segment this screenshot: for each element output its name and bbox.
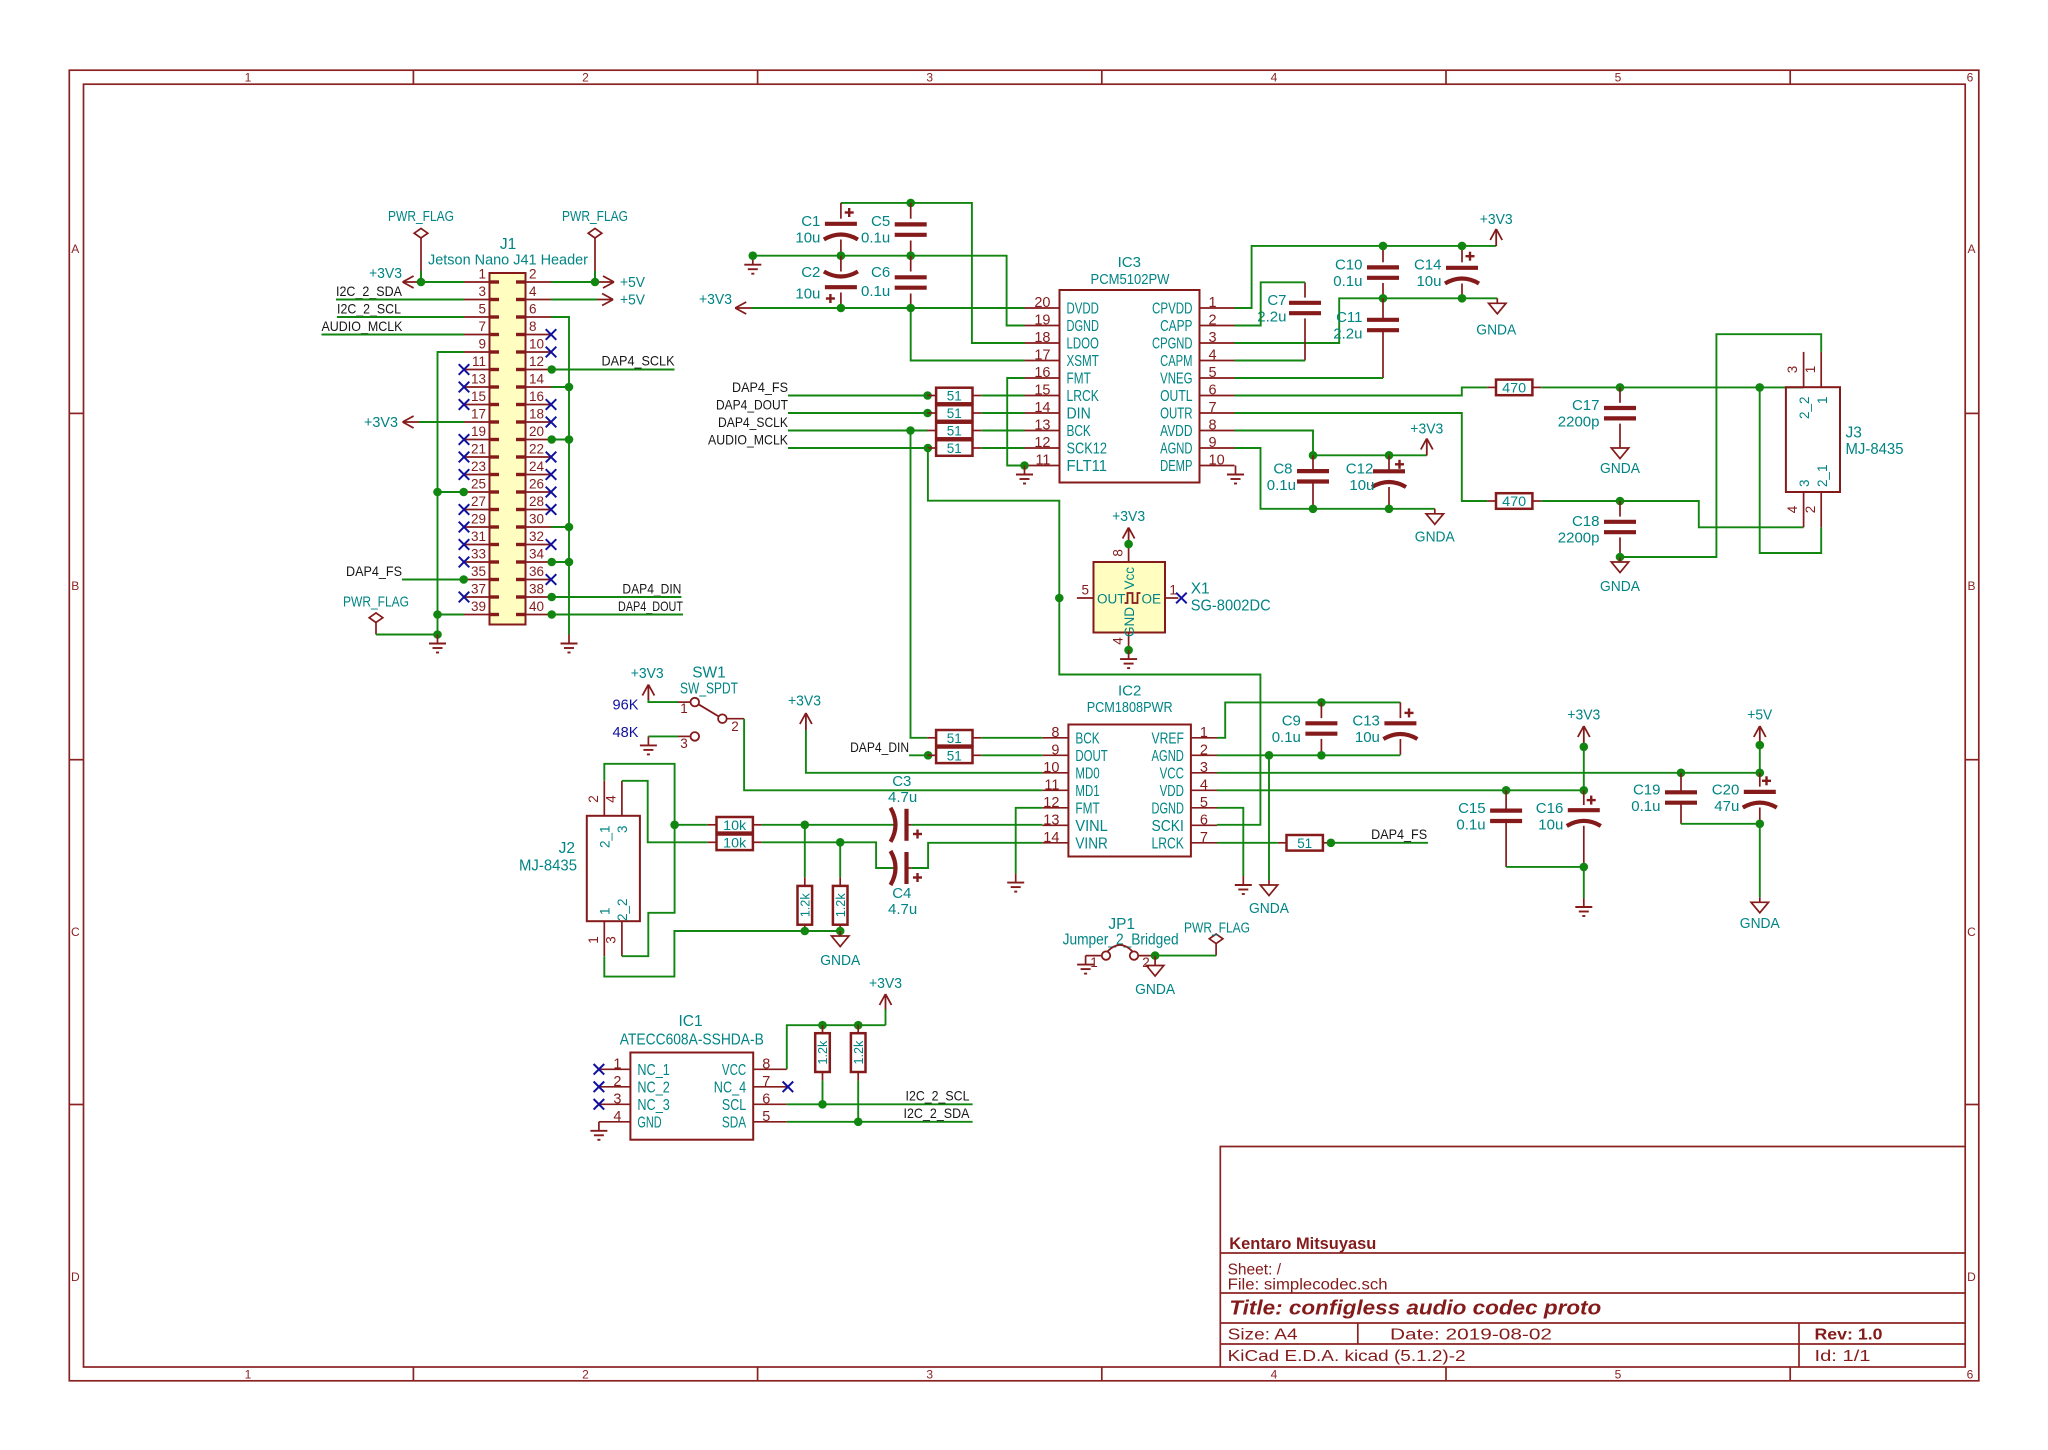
svg-text:C13: C13 [1352,713,1380,730]
svg-text:3: 3 [1785,366,1800,374]
svg-text:AGND: AGND [1152,748,1184,765]
svg-text:FMT: FMT [1067,371,1092,388]
ground GND (DEMP) [1227,466,1244,484]
svg-text:11: 11 [1035,453,1050,469]
junction J1 pin25 pin end [459,488,468,497]
svg-text:36: 36 [529,564,544,579]
capacitor C6 [861,256,927,308]
junction J1 pin1 [417,278,426,287]
svg-text:2: 2 [1803,506,1818,514]
ground GND (J1 right rail) [561,635,578,653]
label DAP4_DOUT (J1) [618,598,683,614]
svg-text:1: 1 [478,267,486,282]
junction C17 top [1616,383,1625,392]
svg-text:4: 4 [613,1109,621,1125]
svg-text:MJ-8435: MJ-8435 [1846,441,1904,458]
svg-text:DGND: DGND [1067,318,1099,335]
wire SW1 pin2 to MD1 pin11 [744,719,1042,791]
svg-text:10: 10 [1209,453,1225,469]
svg-text:32: 32 [529,529,544,544]
wire J1 GND rail left (pins 9,25,39) [438,352,465,635]
wire LRCK pin7 to R [1217,842,1278,844]
svg-text:+3V3: +3V3 [869,976,902,992]
svg-text:PWR_FLAG: PWR_FLAG [343,595,409,611]
junction C8 bottom [1309,505,1318,514]
svg-text:SW1: SW1 [692,665,726,682]
power +3V3 at J1 pin1 [369,266,420,288]
svg-text:File: simplecodec.sch: File: simplecodec.sch [1228,1277,1388,1294]
svg-text:3: 3 [1209,330,1217,346]
wire R470 to J3 pin4 [1541,501,1803,527]
power +5V (IC2 VCC) [1747,708,1772,744]
svg-text:DAP4_SCLK: DAP4_SCLK [602,353,676,369]
no-connect IC1 pin3 [594,1099,605,1110]
svg-text:8: 8 [1209,418,1217,434]
wire C18 GNDA to J3 pin1 [1620,334,1821,557]
ground GNDA (bias) [820,931,860,969]
wire J1 pin7 AUDIO_MCLK [322,334,465,336]
svg-text:VCC: VCC [722,1062,746,1079]
svg-text:CAPM: CAPM [1160,353,1192,370]
svg-text:8: 8 [529,319,537,334]
resistor 1.2k (SDA pullup) [851,1025,866,1081]
wire +3V3 DVDD rail [752,307,1025,309]
svg-text:37: 37 [471,582,486,597]
svg-text:PWR_FLAG: PWR_FLAG [1184,921,1250,937]
svg-text:3: 3 [1797,479,1812,487]
junction OUTL net at J3 [1755,383,1764,392]
svg-text:MJ-8435: MJ-8435 [519,858,577,875]
svg-text:C5: C5 [871,213,890,230]
junction J1 pin30 rail [565,523,574,532]
wire R to BCK pin13 [981,430,1024,432]
wire DAP4_DOUT to R DIN [788,412,928,414]
wire DAP4_DIN to R DOUT [909,754,927,756]
junction C8 top [1309,451,1318,460]
svg-text:8: 8 [1111,549,1126,557]
svg-text:18: 18 [1034,330,1050,346]
svg-text:C1: C1 [801,213,820,230]
wire OUTL to R470 top [1235,387,1488,395]
ground GNDA (C10/C14) [1476,298,1516,338]
svg-text:6: 6 [1209,383,1217,399]
svg-text:Kentaro Mitsuyasu: Kentaro Mitsuyasu [1229,1235,1376,1253]
wire R to IC2 BCK pin8 [981,737,1042,739]
power +3V3 (AVDD) [1410,422,1443,456]
svg-text:Date: 2019-08-02: Date: 2019-08-02 [1390,1327,1552,1344]
capacitor C17 [1558,387,1636,443]
svg-text:1: 1 [245,1368,252,1382]
svg-text:10u: 10u [1538,816,1563,833]
resistor 51 (IC2 LRCK) [1278,835,1332,851]
svg-text:1: 1 [586,936,601,944]
svg-text:1: 1 [1209,295,1217,311]
capacitor C10 [1333,246,1399,298]
svg-text:4: 4 [1200,777,1208,793]
svg-text:IC2: IC2 [1118,683,1141,700]
svg-text:C7: C7 [1267,292,1286,309]
svg-text:51: 51 [947,389,962,404]
svg-text:C6: C6 [871,264,890,281]
svg-text:96K: 96K [613,697,639,714]
svg-text:14: 14 [529,372,545,387]
svg-text:+5V: +5V [1747,708,1772,724]
svg-text:26: 26 [529,477,544,492]
svg-text:OE: OE [1141,592,1161,607]
svg-text:NC_2: NC_2 [637,1079,669,1096]
resistor 10k (VINR) [708,835,762,851]
svg-text:13: 13 [471,372,486,387]
svg-text:1: 1 [1090,955,1098,970]
svg-text:3: 3 [680,736,688,751]
svg-text:10u: 10u [1355,729,1380,746]
ground GND (C16) [1575,898,1592,916]
ground GND (J1 left rail) [429,635,446,653]
capacitor C8 [1267,455,1329,509]
wire AGND to GNDA arrow [1268,755,1270,880]
svg-text:7: 7 [1209,400,1217,416]
ground GNDA (JP1 pin2) [1135,956,1175,998]
svg-text:KiCad E.D.A. kicad (5.1.2)-2: KiCad E.D.A. kicad (5.1.2)-2 [1228,1348,1466,1365]
power PWR_FLAG (top left) [388,209,454,282]
svg-text:I2C_2_SDA: I2C_2_SDA [336,283,403,299]
ground GNDA (C8/C12) [1415,509,1455,546]
wire J2 pin1 to GNDA rail [604,931,840,977]
svg-text:48K: 48K [613,724,639,741]
junction R LRCK right [1327,839,1336,848]
wire FMT to FLT11/GND [1007,378,1024,466]
svg-text:X1: X1 [1191,581,1210,598]
svg-text:Jetson Nano J41 Header: Jetson Nano J41 Header [428,253,588,269]
junction J1 pin35 [459,575,468,584]
junction J1 pin38 [547,593,556,602]
svg-text:51: 51 [947,731,962,746]
svg-text:20: 20 [1034,295,1050,311]
svg-text:1.2k: 1.2k [852,1040,866,1065]
svg-text:13: 13 [1034,418,1050,434]
svg-text:PWR_FLAG: PWR_FLAG [388,209,454,225]
capacitor C19 [1631,773,1697,824]
no-connect IC1 pin1 [594,1064,605,1075]
svg-text:DAP4_DIN: DAP4_DIN [850,739,909,755]
svg-text:C2: C2 [801,264,820,281]
wire SCL to label [787,1103,973,1105]
power +3V3 (CPVDD rail) [1480,212,1513,246]
resistor 470 (OUTL) [1487,380,1541,396]
svg-text:2.2u: 2.2u [1333,326,1362,343]
svg-text:51: 51 [947,748,962,763]
svg-text:DAP4_FS: DAP4_FS [346,563,402,579]
svg-text:470: 470 [1502,380,1526,395]
junction J1 pin2 [591,278,600,287]
svg-text:470: 470 [1502,494,1526,509]
junction R LRCK left [923,391,932,400]
svg-text:17: 17 [1034,348,1050,364]
ground GNDA (IC2 AGND) [1249,880,1289,917]
wire J1 pin2 to +5V [551,281,598,283]
svg-text:21: 21 [471,442,486,457]
wire IC1 VCC to +3V3 [787,1025,886,1069]
svg-text:C10: C10 [1335,257,1363,274]
wire 10k to C3 [762,824,893,826]
connector J1 Jetson Nano J41 Header [428,236,588,625]
svg-text:5: 5 [1081,583,1089,598]
svg-text:VNEG: VNEG [1160,371,1192,388]
power +3V3 (DVDD rail) [699,292,753,314]
resistor 51 (BCK) [927,423,981,439]
svg-text:CPVDD: CPVDD [1152,301,1193,318]
capacitor C9 [1272,702,1338,754]
svg-text:31: 31 [471,529,486,544]
svg-text:GNDA: GNDA [1600,461,1640,477]
no-connect X1 OE [1176,593,1187,604]
svg-text:FMT: FMT [1075,800,1100,817]
svg-text:7: 7 [1200,830,1208,846]
svg-text:1.2k: 1.2k [816,1040,830,1065]
wire C16 bottom to GND [1583,867,1585,898]
svg-text:19: 19 [1034,313,1050,329]
junction X1 Vcc [1124,540,1133,549]
svg-text:10k: 10k [723,818,746,833]
svg-text:AUDIO_MCLK: AUDIO_MCLK [322,318,404,334]
svg-text:AGND: AGND [1160,441,1192,458]
svg-text:MD1: MD1 [1075,783,1099,800]
junction C9 top [1317,698,1326,707]
ground GND (JP1 pin1) [1077,956,1094,974]
connector J3 MJ-8435 [1785,352,1904,527]
svg-text:+5V: +5V [620,275,645,291]
label DAP4_FS (IC3) [732,379,788,395]
wire VINR bias [839,842,841,877]
svg-text:DGND: DGND [1152,800,1184,817]
svg-text:DAP4_FS: DAP4_FS [732,379,788,395]
junction C1 mid [837,251,846,260]
svg-text:0.1u: 0.1u [861,283,890,300]
ground GNDA (C18) [1600,557,1640,595]
junction C5 mid [906,251,915,260]
label DAP4_FS (IC2) [1371,826,1427,842]
power +5V at J1 pin2 [597,275,646,291]
IC IC2 PCM1808PWR body [1042,683,1217,857]
junction J1 GND rail bottom [433,630,442,639]
junction +5V stem [1756,741,1765,750]
svg-text:7: 7 [762,1074,770,1090]
svg-text:DAP4_DIN: DAP4_DIN [622,581,681,597]
svg-text:17: 17 [471,407,486,422]
svg-text:29: 29 [471,512,486,527]
svg-text:VINL: VINL [1075,818,1108,835]
svg-text:22: 22 [529,442,544,457]
svg-text:OUTR: OUTR [1160,406,1192,423]
svg-text:DIN: DIN [1067,406,1091,423]
svg-text:11: 11 [472,354,486,369]
svg-text:2: 2 [1209,313,1217,329]
svg-text:DAP4_FS: DAP4_FS [1371,826,1427,842]
svg-text:5: 5 [1209,365,1217,381]
svg-text:1: 1 [1815,396,1830,404]
svg-text:GNDA: GNDA [1600,579,1640,595]
svg-text:I2C_2_SDA: I2C_2_SDA [904,1105,971,1121]
svg-text:GNDA: GNDA [1415,530,1455,546]
svg-text:10k: 10k [723,835,746,850]
svg-text:GNDA: GNDA [1476,323,1516,339]
note 48K [613,724,639,741]
svg-text:A: A [71,242,79,256]
power PWR_FLAG (J1 bottom) [343,595,409,635]
svg-text:3: 3 [613,1091,621,1107]
junction JP1 pin2 [1151,951,1160,960]
junction J1 pin40 [547,610,556,619]
wire C4 to VINR pin14 [911,843,1042,868]
svg-text:OUTL: OUTL [1160,388,1193,405]
svg-text:AVDD: AVDD [1160,423,1192,440]
wire CPGND to GNDA rail [1235,298,1498,343]
svg-text:3: 3 [478,284,486,299]
svg-text:IC3: IC3 [1118,254,1141,271]
junction R BCK left [906,426,915,435]
capacitor C12 [1346,455,1406,509]
label I2C_2_SDA (IC1) [904,1105,971,1121]
wire OUTR to R470 bottom [1235,413,1488,501]
label DAP4_FS (J1) [346,563,402,579]
svg-text:16: 16 [529,389,544,404]
svg-text:4: 4 [529,284,537,299]
svg-text:SW_SPDT: SW_SPDT [680,681,738,698]
svg-text:6: 6 [529,302,537,317]
resistor 470 (OUTR) [1487,493,1541,509]
resistor 51 (IC2 DOUT) [927,748,981,764]
svg-text:+3V3: +3V3 [1480,212,1513,228]
svg-text:C8: C8 [1273,460,1292,477]
svg-text:DAP4_SCLK: DAP4_SCLK [718,414,789,430]
svg-text:2200p: 2200p [1558,530,1600,547]
svg-text:C: C [71,925,80,939]
power +3V3 at J1 pin17 [364,415,420,431]
svg-text:2_2: 2_2 [615,898,630,921]
svg-text:18: 18 [529,407,544,422]
svg-text:47u: 47u [1714,798,1739,815]
label DAP4_DIN (J1) [622,581,681,597]
svg-text:VDD: VDD [1160,783,1184,800]
svg-text:B: B [71,579,79,593]
capacitor C2 [795,256,858,308]
svg-text:1: 1 [680,701,688,716]
resistor 51 (DIN) [927,405,981,421]
wire R to IC2 DOUT pin9 [981,754,1042,756]
wire R to DIN pin14 [981,412,1024,414]
junction J1 pin14 rail [565,383,574,392]
svg-text:+3V3: +3V3 [699,292,732,308]
svg-text:2.2u: 2.2u [1257,309,1286,326]
svg-text:27: 27 [471,494,486,509]
power +3V3 (SW1) [631,666,664,702]
svg-text:12: 12 [529,354,544,369]
IC IC1 ATECC608A-SSHDA-B body [599,1013,787,1140]
wire R to SCK12 pin12 [981,447,1024,449]
svg-text:Id: 1/1: Id: 1/1 [1815,1348,1871,1365]
label DAP4_SCLK (IC3) [718,414,789,430]
svg-text:VINR: VINR [1075,835,1107,852]
wire +3V3 to MD0 pin10 [806,730,1042,773]
svg-text:4.7u: 4.7u [888,789,917,806]
junction bias VINR [836,838,845,847]
wire AGND to GNDA rail [1235,448,1435,509]
ground GND (SW1) [640,736,657,754]
svg-text:1: 1 [1169,583,1177,598]
junction C16 top [1580,786,1589,795]
svg-text:SDA: SDA [722,1114,747,1131]
label AUDIO_MCLK (IC3) [708,432,789,448]
resistor 10k (VINL) [708,817,762,833]
label I2C_2_SCL [337,301,401,317]
wire CPVDD to +3V3 rail [1235,246,1497,308]
label DAP4_DIN (IC2) [850,739,909,755]
svg-text:28: 28 [529,494,544,509]
no-connect IC1 pin2 [594,1082,605,1093]
svg-text:0.1u: 0.1u [1267,477,1296,494]
junction J1 pin39 rail [433,610,442,619]
svg-text:2: 2 [582,71,589,85]
junction C9 bottom [1317,751,1326,760]
svg-text:LRCK: LRCK [1152,835,1185,852]
svg-text:39: 39 [471,599,486,614]
junction AGND GNDA [1265,751,1274,760]
switch SW1 SW_SPDT [678,665,744,752]
junction bias VINL [801,821,810,830]
svg-text:8: 8 [762,1056,770,1072]
junction J1 pin12 [547,365,556,374]
wire DAP4_SCLK to R BCK [788,430,928,432]
ground GNDA (C20) [1740,897,1780,932]
svg-text:0.1u: 0.1u [861,230,890,247]
ground GND (IC2 DGND) [1235,876,1252,894]
svg-text:IC1: IC1 [678,1013,702,1030]
wire C19/C20 bottom [1681,823,1760,825]
capacitor C3 [888,773,922,842]
wire +3V3 stem (IC1) [885,1009,887,1025]
svg-text:1: 1 [598,907,613,915]
svg-text:6: 6 [762,1091,770,1107]
wire PWR_FLAG to J1 pin2 [594,271,596,282]
svg-text:2: 2 [613,1074,621,1090]
svg-text:7: 7 [478,319,486,334]
svg-text:+3V3: +3V3 [1567,708,1600,724]
wire J2 pin4 to VINR net [622,781,708,843]
svg-text:JP1: JP1 [1108,916,1135,933]
capacitor C1 [795,203,858,256]
svg-text:FLT11: FLT11 [1067,458,1108,475]
svg-text:30: 30 [529,512,544,527]
resistor 51 (SCK12) [927,440,981,456]
svg-text:NC_4: NC_4 [714,1079,747,1096]
svg-text:11: 11 [1044,777,1059,793]
wire J1 right rail (pins 6,14,20,30,34) [551,317,569,635]
wire J1 pin12 DAP4_SCLK [551,369,675,371]
svg-text:GNDA: GNDA [1135,982,1175,998]
wire C3 to VINL pin13 [911,824,1042,826]
svg-text:4.7u: 4.7u [888,901,917,918]
svg-text:25: 25 [471,477,486,492]
junction C20 top [1756,769,1765,778]
svg-text:3: 3 [1200,760,1208,776]
label X1 designator [1191,581,1271,615]
wire J1 pin35 DAP4_FS [402,579,464,581]
label DAP4_SCLK (J1) [602,353,676,369]
resistor 51 (LRCK) [927,388,981,404]
svg-text:C3: C3 [892,773,911,790]
title block [1220,1147,1965,1368]
ground GND (X1) [1120,650,1137,668]
